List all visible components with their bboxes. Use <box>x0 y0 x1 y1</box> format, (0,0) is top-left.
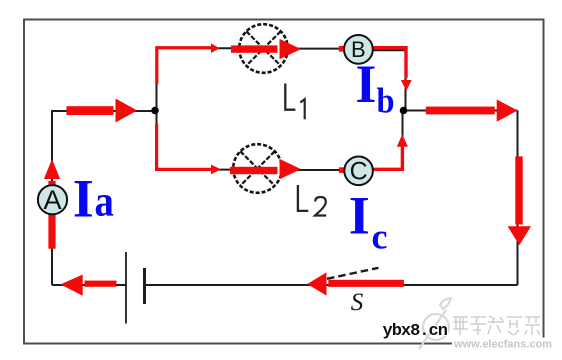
label L2 <box>298 185 326 216</box>
node right junction <box>400 107 408 115</box>
current flow line B to right node, arrow down <box>373 48 412 91</box>
current arrow up (through ammeter A) <box>44 159 60 249</box>
current arrow right (node to right column) <box>426 99 518 121</box>
label Ia <box>73 168 114 228</box>
current arrow left (bottom-left, into battery loop) <box>61 275 117 296</box>
ammeter C <box>344 157 373 186</box>
current arrow down (right column) <box>508 156 531 245</box>
ammeter B <box>344 35 373 64</box>
lamp L2 <box>233 144 282 193</box>
red stub before ammeter B <box>339 46 345 52</box>
wire branch1 riser <box>156 48 158 110</box>
svg-text:c: c <box>372 216 388 256</box>
svg-text:I: I <box>73 168 94 228</box>
node left junction <box>151 107 159 115</box>
svg-text:I: I <box>349 186 370 246</box>
wire lamp L1 to ammeter B <box>288 48 344 50</box>
battery long plate <box>125 252 127 324</box>
current flow line C to right node, arrow up <box>373 134 408 169</box>
svg-text:www.elecfans.com: www.elecfans.com <box>453 339 552 351</box>
current flow line branch1 (node to lamp) <box>157 43 220 84</box>
label Ib <box>355 54 394 121</box>
svg-text:b: b <box>377 81 395 121</box>
wire ammeter C to right riser <box>373 111 403 171</box>
wire bottom run right of battery <box>146 284 518 286</box>
wire branch1 top run to lamp L1 <box>157 47 240 49</box>
wire bottom run left of battery <box>52 284 126 286</box>
wire right horizontal to right column <box>404 110 518 112</box>
red stub before ammeter C <box>339 167 345 173</box>
current arrow left (bottom run at switch) <box>307 272 404 295</box>
label L1 <box>285 84 304 120</box>
switch S blade <box>327 268 379 279</box>
svg-text:A: A <box>43 185 61 215</box>
svg-text:I: I <box>355 54 376 114</box>
wire branch2 dropper <box>157 111 234 170</box>
ammeter A <box>38 185 67 215</box>
label Ic <box>349 186 388 257</box>
wire ammeter B to right riser <box>373 50 406 110</box>
battery short plate <box>143 268 146 304</box>
svg-text:C: C <box>350 158 368 186</box>
wire left column and top-left horizontal <box>52 111 155 285</box>
lamp L1 <box>239 24 288 73</box>
svg-text:ybx8.cn: ybx8.cn <box>383 322 448 341</box>
wire right column <box>517 111 519 286</box>
wire lamp L2 to ammeter C <box>282 169 344 171</box>
svg-text:a: a <box>95 176 115 225</box>
current arrow right (top-left wire) <box>67 99 138 123</box>
current flow line branch2 (node to lamp L2) <box>157 124 221 174</box>
watermark cover <box>452 338 562 352</box>
svg-text:S: S <box>351 289 364 316</box>
current arrow right (through lamp L1) <box>231 39 301 59</box>
current arrow right (through lamp L2) <box>230 159 301 179</box>
